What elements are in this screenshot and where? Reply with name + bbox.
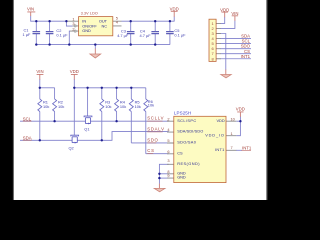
- svg-text:0.1 µF: 0.1 µF: [56, 32, 68, 37]
- svg-text:SDO/SA0: SDO/SA0: [177, 140, 197, 145]
- svg-text:VDD: VDD: [170, 6, 179, 11]
- svg-text:RES(GND): RES(GND): [177, 161, 200, 166]
- svg-text:VIN: VIN: [231, 11, 238, 16]
- svg-text:INT1: INT1: [242, 145, 252, 150]
- svg-text:Q2: Q2: [69, 145, 74, 150]
- svg-text:VDD_IO: VDD_IO: [205, 133, 225, 138]
- svg-text:VDD: VDD: [220, 7, 229, 12]
- svg-text:0.1 µF: 0.1 µF: [174, 33, 186, 38]
- svg-text:Q1: Q1: [84, 126, 89, 131]
- svg-text:GND: GND: [82, 28, 91, 33]
- svg-text:9: 9: [167, 173, 169, 178]
- svg-text:INT1: INT1: [215, 147, 225, 152]
- svg-text:SCL/SPC: SCL/SPC: [177, 118, 196, 123]
- svg-text:CS: CS: [177, 150, 183, 155]
- svg-text:4.7 µF: 4.7 µF: [140, 33, 152, 38]
- svg-text:6: 6: [167, 149, 169, 154]
- svg-text:SDA/SDI/SDO: SDA/SDI/SDO: [177, 129, 203, 134]
- svg-text:SDA: SDA: [23, 136, 32, 141]
- svg-text:10k: 10k: [105, 104, 111, 109]
- svg-text:1: 1: [231, 131, 233, 136]
- svg-text:5: 5: [167, 138, 169, 143]
- svg-text:7: 7: [231, 145, 233, 150]
- svg-text:VDD: VDD: [217, 118, 225, 123]
- svg-text:VIN: VIN: [36, 69, 43, 74]
- svg-text:10k: 10k: [120, 104, 126, 109]
- svg-text:10k: 10k: [58, 104, 64, 109]
- svg-text:CS: CS: [147, 148, 155, 153]
- svg-text:10k: 10k: [135, 104, 141, 109]
- svg-text:10k: 10k: [148, 103, 154, 108]
- svg-text:VDD: VDD: [70, 69, 79, 74]
- svg-text:2: 2: [167, 116, 169, 121]
- svg-text:SCLLV: SCLLV: [147, 116, 164, 121]
- svg-text:2: 2: [72, 26, 74, 31]
- svg-text:SDALV: SDALV: [147, 127, 165, 132]
- svg-text:GND: GND: [177, 175, 186, 180]
- svg-text:SCL: SCL: [23, 116, 32, 121]
- svg-text:VDD: VDD: [236, 107, 245, 112]
- svg-text:10k: 10k: [43, 104, 49, 109]
- svg-text:VIN: VIN: [27, 7, 34, 12]
- svg-text:INT1: INT1: [241, 54, 251, 59]
- svg-text:NC: NC: [101, 24, 107, 29]
- svg-text:LPS25H: LPS25H: [174, 110, 191, 115]
- svg-text:SDO: SDO: [147, 137, 158, 142]
- svg-text:3: 3: [167, 158, 169, 163]
- svg-text:4.7 µF: 4.7 µF: [117, 33, 129, 38]
- svg-text:1 µF: 1 µF: [23, 32, 31, 37]
- svg-text:3.3V LDO: 3.3V LDO: [81, 11, 98, 15]
